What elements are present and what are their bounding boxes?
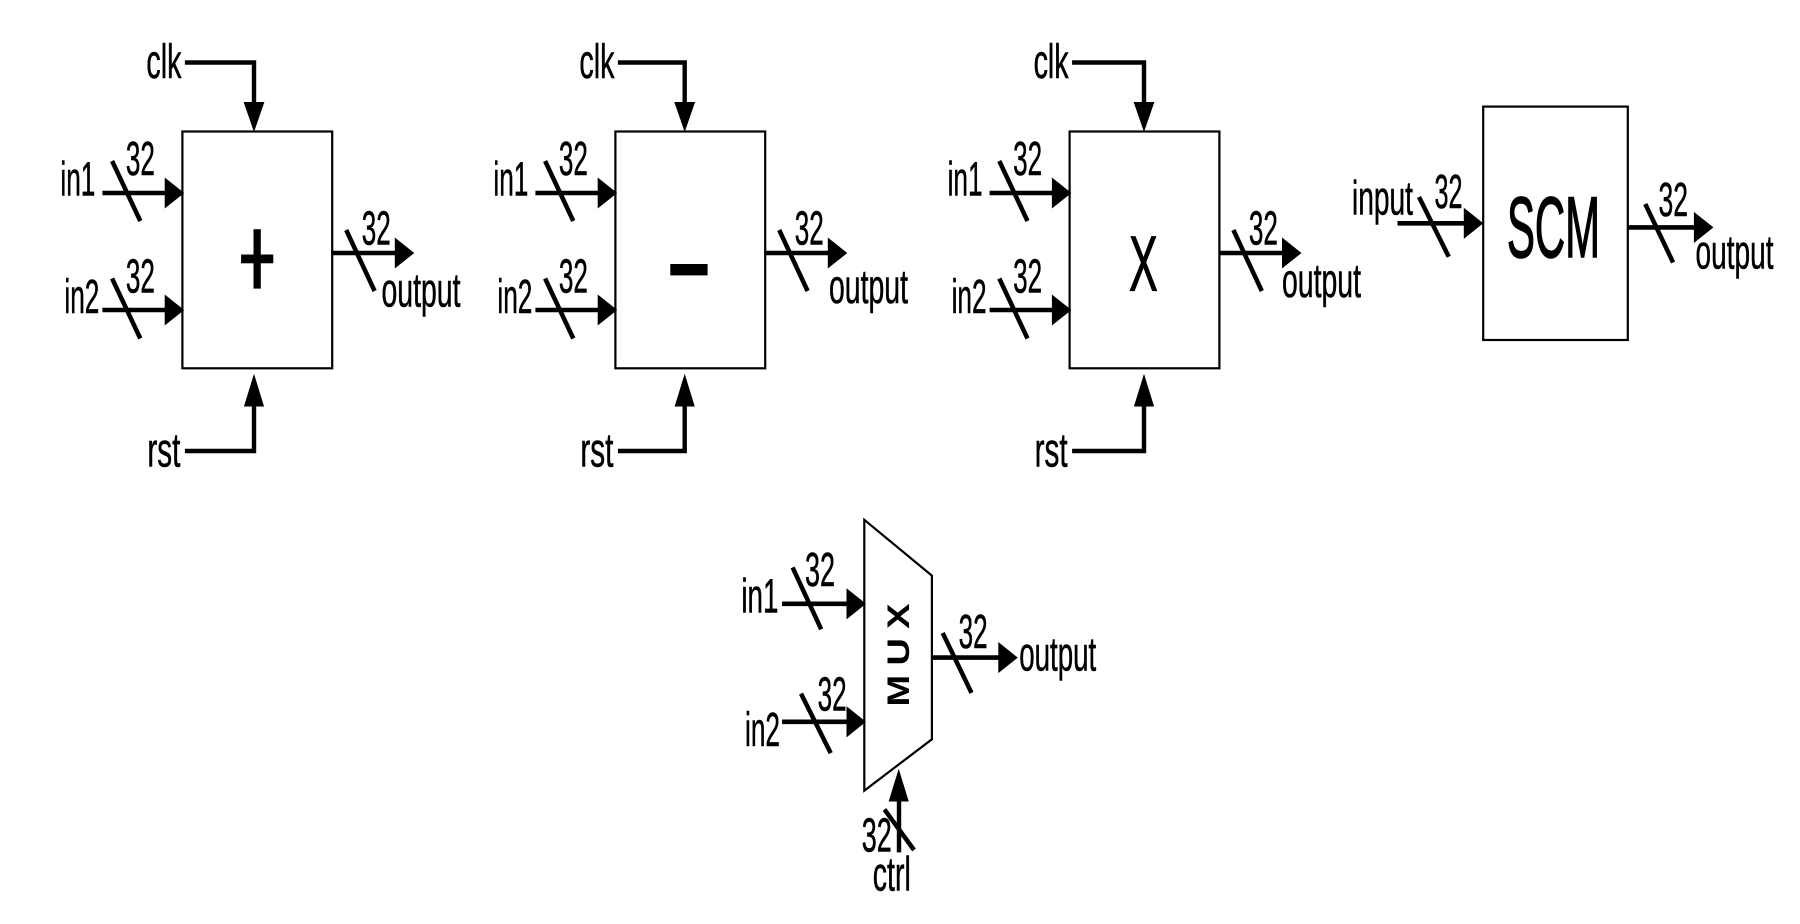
svg-text:32: 32 bbox=[126, 251, 155, 304]
svg-text:32: 32 bbox=[1435, 166, 1463, 219]
svg-text:32: 32 bbox=[1013, 251, 1042, 304]
multiplier block box bbox=[1070, 132, 1220, 369]
output bus slash (SCM) bbox=[1645, 204, 1673, 263]
wire rst (subtractor) bbox=[618, 404, 685, 451]
output arrowhead (SCM) bbox=[1694, 213, 1712, 242]
wire in2 (adder) bbox=[102, 308, 170, 313]
svg-text:output: output bbox=[1282, 255, 1361, 308]
in1 arrowhead (adder) bbox=[165, 179, 183, 208]
wire in1 (subtractor) bbox=[535, 191, 603, 196]
plus symbol (adder) bbox=[242, 255, 273, 263]
in1 arrowhead (multiplier) bbox=[1052, 179, 1070, 208]
in2 bus slash (multiplier) bbox=[999, 279, 1027, 339]
ctrl arrowhead (MUX) bbox=[889, 771, 908, 802]
subtractor block box bbox=[615, 132, 765, 369]
wire output (MUX) bbox=[932, 655, 1003, 660]
svg-text:in1: in1 bbox=[948, 154, 983, 207]
svg-text:32: 32 bbox=[126, 133, 155, 186]
wire clk (adder) bbox=[185, 63, 254, 107]
svg-text:in2: in2 bbox=[64, 271, 99, 324]
in2 arrowhead (adder) bbox=[165, 296, 183, 325]
in2 arrowhead (subtractor) bbox=[598, 296, 616, 325]
svg-text:clk: clk bbox=[146, 36, 182, 89]
output arrowhead (multiplier) bbox=[1283, 239, 1301, 268]
svg-text:in1: in1 bbox=[493, 154, 528, 207]
svg-text:32: 32 bbox=[1013, 133, 1042, 186]
svg-text:MUX: MUX bbox=[882, 604, 916, 707]
in1 bus slash (adder) bbox=[112, 161, 140, 221]
wire output (subtractor) bbox=[764, 251, 831, 256]
in1 bus slash (multiplier) bbox=[999, 161, 1027, 221]
wire rst (multiplier) bbox=[1072, 404, 1144, 451]
wire in2 (multiplier) bbox=[990, 308, 1058, 313]
minus symbol (subtractor) bbox=[671, 265, 707, 275]
wire input (SCM) bbox=[1398, 221, 1471, 226]
svg-text:32: 32 bbox=[362, 202, 391, 255]
svg-text:32: 32 bbox=[959, 606, 988, 659]
output arrowhead (adder) bbox=[395, 239, 413, 268]
output arrowhead (MUX) bbox=[999, 643, 1017, 672]
svg-text:in2: in2 bbox=[952, 271, 987, 324]
svg-text:32: 32 bbox=[818, 669, 847, 722]
rst arrowhead (adder) bbox=[245, 376, 264, 407]
wire output (adder) bbox=[331, 251, 398, 256]
input bus slash (SCM) bbox=[1419, 197, 1449, 257]
output bus slash (multiplier) bbox=[1233, 230, 1261, 291]
svg-text:output: output bbox=[829, 261, 908, 314]
in2 bus slash (adder) bbox=[112, 279, 140, 339]
svg-text:ctrl: ctrl bbox=[873, 848, 911, 901]
wire in1 (multiplier) bbox=[990, 191, 1058, 196]
clk arrowhead (adder) bbox=[244, 103, 263, 131]
wire in1 (MUX) bbox=[782, 601, 852, 606]
clk arrowhead (subtractor) bbox=[675, 103, 694, 131]
SCM block box bbox=[1483, 107, 1628, 340]
in2 bus slash (MUX) bbox=[801, 694, 831, 754]
svg-text:rst: rst bbox=[580, 425, 613, 478]
output bus slash (adder) bbox=[346, 230, 374, 291]
rst arrowhead (subtractor) bbox=[675, 376, 694, 407]
output arrowhead (subtractor) bbox=[828, 239, 846, 268]
svg-text:clk: clk bbox=[579, 36, 615, 89]
svg-text:output: output bbox=[1019, 629, 1096, 682]
in2 arrowhead (multiplier) bbox=[1052, 296, 1070, 325]
wire clk (subtractor) bbox=[618, 63, 685, 107]
svg-text:clk: clk bbox=[1034, 36, 1070, 89]
svg-text:X: X bbox=[1129, 219, 1158, 307]
svg-text:input: input bbox=[1352, 173, 1413, 226]
in1 bus slash (subtractor) bbox=[545, 161, 573, 221]
wire clk (multiplier) bbox=[1072, 63, 1144, 107]
svg-text:SCM: SCM bbox=[1507, 180, 1600, 276]
svg-text:output: output bbox=[1696, 227, 1774, 280]
wire rst (adder) bbox=[185, 404, 254, 451]
svg-text:in1: in1 bbox=[60, 154, 95, 207]
svg-text:in2: in2 bbox=[745, 704, 780, 757]
svg-text:rst: rst bbox=[147, 425, 180, 478]
wire in2 (subtractor) bbox=[535, 308, 603, 313]
svg-text:32: 32 bbox=[1659, 174, 1689, 227]
ctrl bus slash (MUX) bbox=[885, 810, 915, 851]
svg-text:32: 32 bbox=[805, 544, 835, 597]
wire in2 (MUX) bbox=[782, 719, 852, 724]
svg-text:32: 32 bbox=[1249, 202, 1278, 255]
svg-text:output: output bbox=[382, 265, 461, 318]
wire ctrl (MUX) bbox=[897, 799, 901, 852]
in1 bus slash (MUX) bbox=[793, 567, 822, 629]
svg-text:in1: in1 bbox=[741, 571, 778, 624]
output bus slash (subtractor) bbox=[779, 230, 807, 291]
wire in1 (adder) bbox=[102, 191, 170, 196]
rst arrowhead (multiplier) bbox=[1135, 376, 1154, 407]
wire output (multiplier) bbox=[1218, 251, 1285, 256]
MUX trapezoid bbox=[864, 520, 932, 791]
svg-text:32: 32 bbox=[559, 133, 588, 186]
in2 bus slash (subtractor) bbox=[545, 279, 573, 339]
svg-text:32: 32 bbox=[795, 202, 824, 255]
in1 arrowhead (MUX) bbox=[847, 589, 865, 618]
svg-text:32: 32 bbox=[559, 251, 588, 304]
in1 arrowhead (subtractor) bbox=[598, 179, 616, 208]
adder block box bbox=[182, 132, 332, 369]
svg-text:rst: rst bbox=[1035, 425, 1068, 478]
clk arrowhead (multiplier) bbox=[1134, 103, 1153, 131]
input arrowhead (SCM) bbox=[1464, 209, 1482, 238]
svg-text:in2: in2 bbox=[497, 271, 532, 324]
output bus slash (MUX) bbox=[943, 633, 972, 693]
wire output (SCM) bbox=[1627, 225, 1698, 230]
in2 arrowhead (MUX) bbox=[847, 707, 865, 736]
